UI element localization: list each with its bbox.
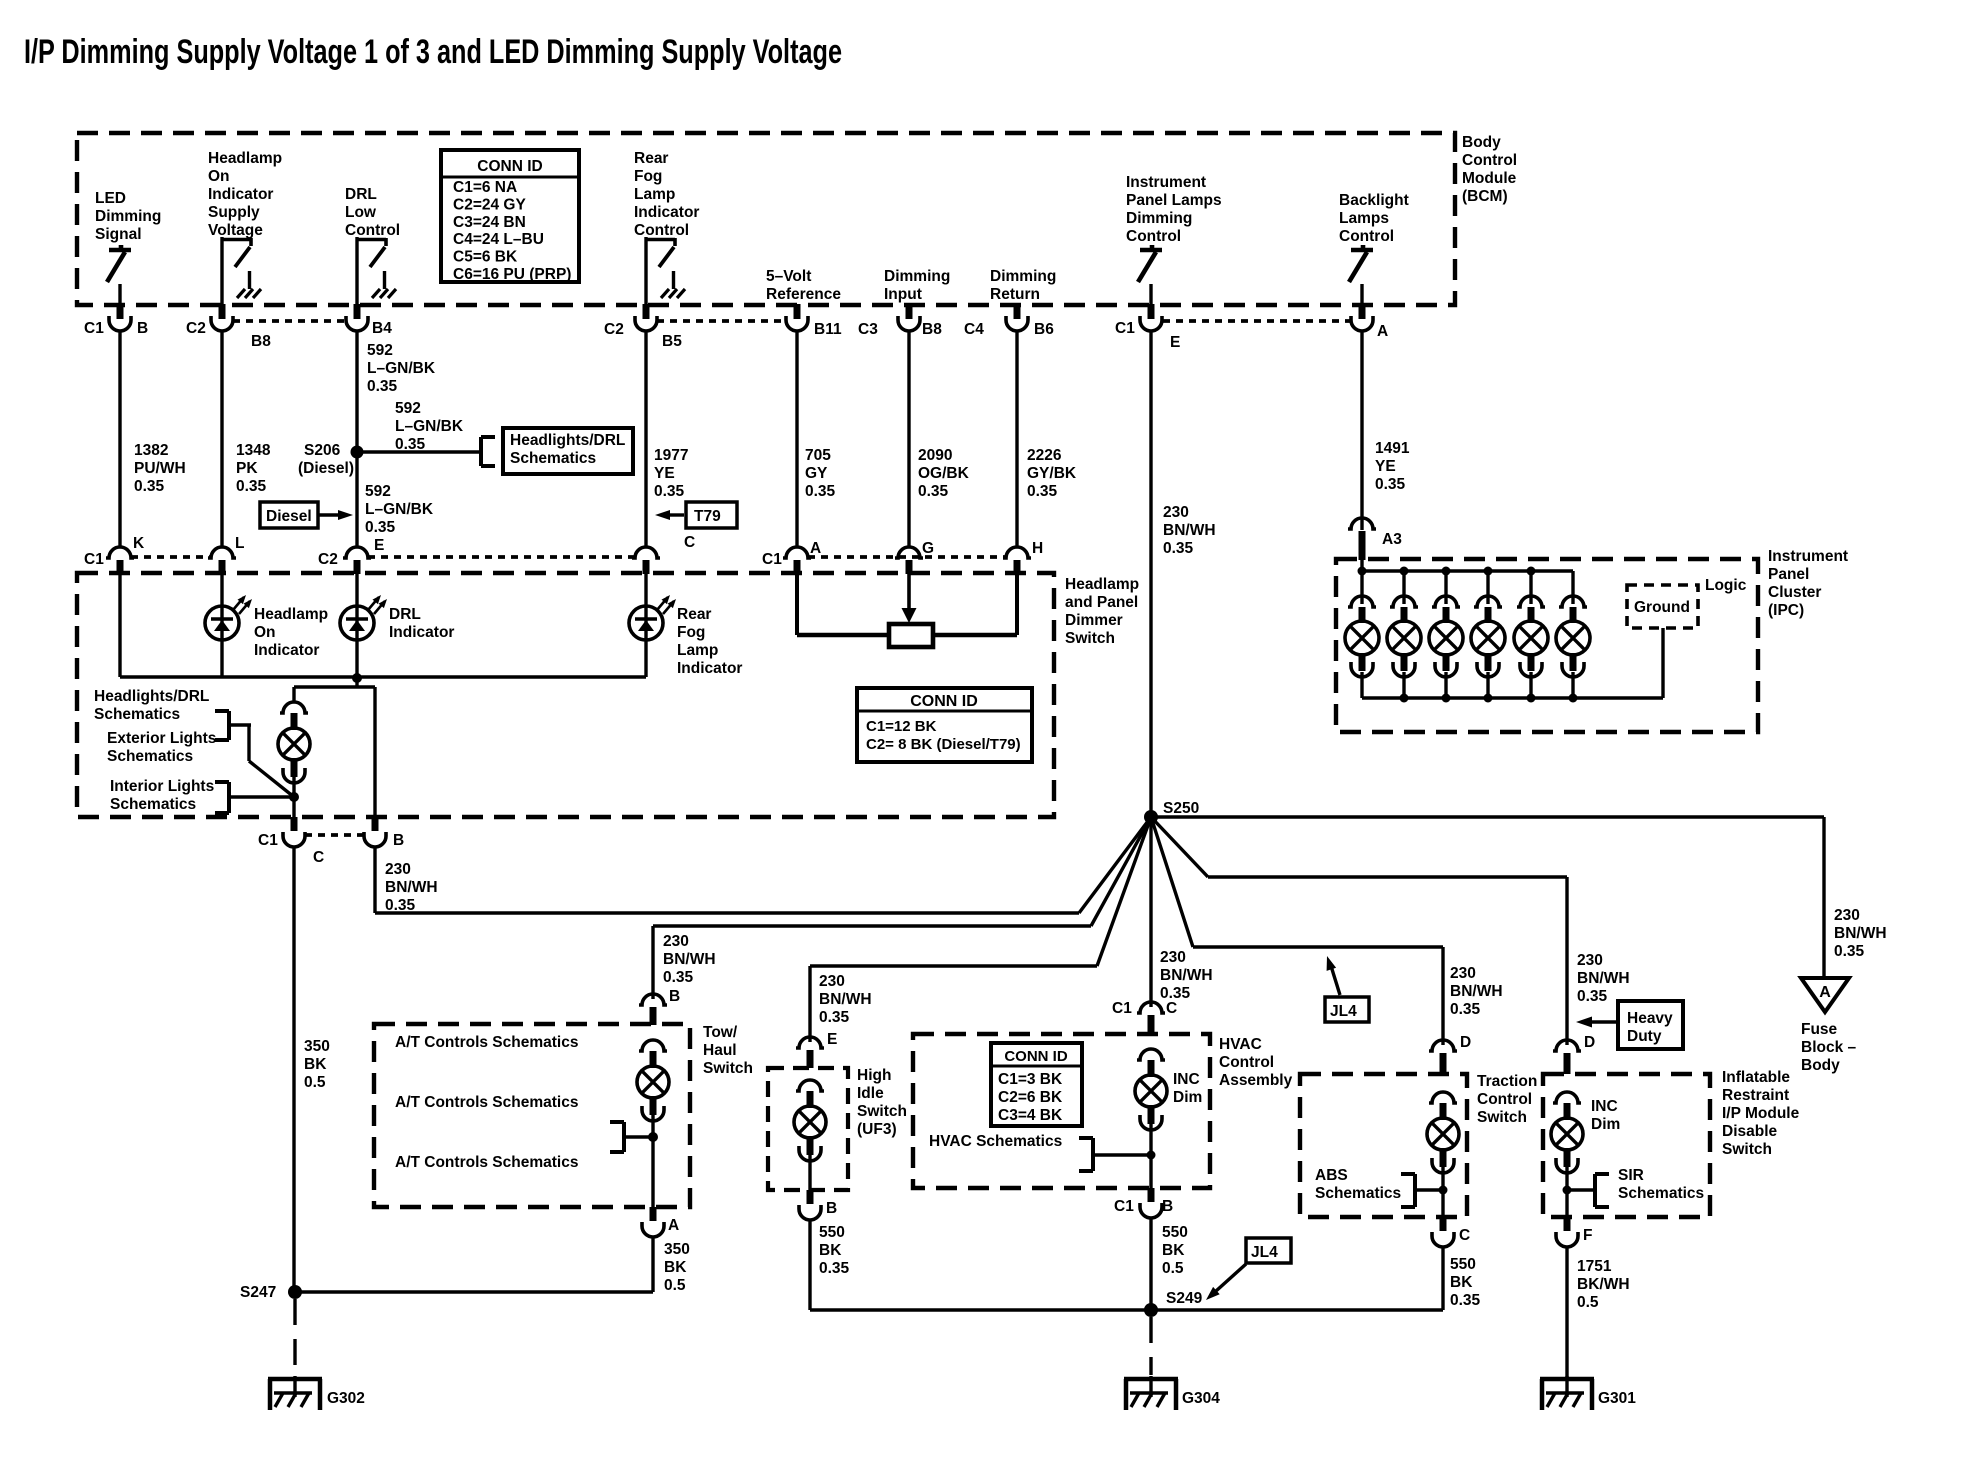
svg-text:G304: G304 [1182,1390,1220,1407]
svg-text:Control: Control [1462,152,1517,169]
wire 1382 PU/WH [118,331,121,548]
svg-text:230: 230 [1160,949,1186,966]
svg-text:Backlight: Backlight [1339,192,1409,209]
svg-text:C4=24 L–BU: C4=24 L–BU [453,231,544,248]
svg-text:CONN ID: CONN ID [910,693,978,710]
svg-text:Headlamp: Headlamp [254,606,328,623]
bracket interior lights [215,782,229,813]
label 1382 PU/WH 0.35 [134,442,186,495]
inflatable INC Dim lamp [1551,1092,1620,1173]
svg-text:0.35: 0.35 [654,483,685,500]
svg-text:G: G [922,540,934,557]
IPC backlight bulb 3 [1429,567,1463,703]
svg-text:0.35: 0.35 [1450,1001,1481,1018]
illumination lamp in dimmer switch [278,702,310,783]
connector C1-C (dimmer bottom) [258,817,324,866]
svg-text:Headlights/DRL: Headlights/DRL [510,432,625,449]
svg-text:A3: A3 [1382,531,1402,548]
svg-text:2226: 2226 [1027,447,1062,464]
svg-text:350: 350 [304,1038,330,1055]
svg-text:B4: B4 [372,320,392,337]
HVAC INC Dim lamp [1135,1049,1202,1130]
svg-text:I/P Module: I/P Module [1722,1105,1800,1122]
wire L through headlamp indicator [220,574,223,677]
svg-text:OG/BK: OG/BK [918,465,970,482]
svg-text:C3=24 BN: C3=24 BN [453,214,526,231]
svg-text:0.5: 0.5 [304,1074,326,1091]
link from bracket to lamp wire [229,725,294,797]
svg-text:ABS: ABS [1315,1167,1348,1184]
Instrument Panel Cluster label [1768,548,1848,619]
svg-text:D: D [1460,1034,1471,1051]
svg-text:A: A [810,540,821,557]
svg-text:Dim: Dim [1591,1116,1620,1133]
svg-text:B: B [669,988,680,1005]
svg-text:5–Volt: 5–Volt [766,268,811,285]
svg-text:L–GN/BK: L–GN/BK [395,418,464,435]
svg-text:Heavy: Heavy [1627,1010,1673,1027]
wiper arrow from G [902,574,917,623]
svg-text:A: A [668,1217,679,1234]
ground G301 [1540,1376,1636,1410]
svg-text:JL4: JL4 [1251,1244,1278,1261]
svg-text:0.35: 0.35 [819,1260,850,1277]
svg-text:0.35: 0.35 [1577,988,1608,1005]
svg-text:HVAC Schematics: HVAC Schematics [929,1133,1062,1150]
svg-text:Fog: Fog [677,624,705,641]
connector C1-A (dimmer) [762,540,821,574]
wire A to S247 bus [651,1237,654,1292]
label 230 BN/WH 0.35 (inflatable) [1577,952,1630,1005]
Backlight driver symbol [1349,245,1373,282]
Dimming Return label [990,268,1056,303]
wire S250 to high idle switch [810,817,1151,1042]
svg-text:230: 230 [385,861,411,878]
wire HVAC B to S249 [1149,1218,1152,1310]
connector C1-K [84,535,145,574]
svg-text:550: 550 [1450,1256,1476,1273]
dotted connector link C2/B8 to B4 [233,319,346,323]
bracket ABS schematics [1401,1174,1415,1207]
connector pin C3-B8 (dimming input) [858,304,942,338]
svg-text:(BCM): (BCM) [1462,188,1508,205]
svg-text:T79: T79 [694,508,721,525]
connector C1-B HVAC [1114,1188,1173,1218]
svg-text:592: 592 [395,400,421,417]
Tow/Haul Switch label [703,1024,753,1077]
svg-text:230: 230 [1163,504,1189,521]
connector B (dimmer bottom) [364,817,404,849]
link SIR bracket to wire [1563,1186,1596,1195]
svg-text:Switch: Switch [1477,1109,1527,1126]
svg-text:Fuse: Fuse [1801,1021,1838,1038]
link ABS bracket to wire [1415,1186,1448,1195]
T79 arrow [655,510,684,520]
link interior bracket to junction [229,795,294,798]
svg-text:(UF3): (UF3) [857,1121,897,1138]
svg-text:BN/WH: BN/WH [1163,522,1216,539]
svg-text:PU/WH: PU/WH [134,460,186,477]
svg-text:1382: 1382 [134,442,168,459]
A/T Controls Schematics labels [395,1034,578,1171]
svg-text:0.35: 0.35 [805,483,836,500]
svg-text:230: 230 [1450,965,1476,982]
svg-text:S247: S247 [240,1284,276,1301]
svg-text:B: B [1162,1198,1173,1215]
svg-text:Dim: Dim [1173,1089,1202,1106]
svg-text:Module: Module [1462,170,1517,187]
svg-text:BN/WH: BN/WH [1577,970,1630,987]
svg-text:DRL: DRL [345,186,377,203]
svg-text:Dimming: Dimming [95,208,161,225]
IPC backlight bulb 2 [1387,567,1421,703]
high idle switch dashed box [768,1068,848,1190]
svg-text:Haul: Haul [703,1042,737,1059]
Dimming Input label [884,268,950,303]
Instrument Panel Lamps Dimming Control label [1126,174,1222,245]
svg-text:I/P Dimming Supply Voltage 1 o: I/P Dimming Supply Voltage 1 of 3 and LE… [24,33,842,71]
svg-text:Body: Body [1801,1057,1840,1074]
svg-text:Switch: Switch [857,1103,907,1120]
svg-text:Lamp: Lamp [677,642,718,659]
IPC backlight bulb 1 [1345,567,1379,699]
svg-text:230: 230 [663,933,689,950]
Rear Fog driver symbol [646,238,685,298]
DRL Low Control driver symbol [357,238,396,298]
Backlight Lamps Control label [1339,192,1409,245]
HVAC Schematics label [929,1133,1062,1150]
svg-text:550: 550 [1162,1224,1188,1241]
svg-text:C: C [1166,1000,1177,1017]
headlamp and panel dimmer switch dashed box [77,573,1054,817]
svg-text:Panel Lamps: Panel Lamps [1126,192,1222,209]
svg-text:D: D [1584,1034,1595,1051]
svg-text:0.5: 0.5 [1577,1294,1599,1311]
svg-text:0.35: 0.35 [1450,1292,1481,1309]
svg-text:BK: BK [1450,1274,1473,1291]
wire branch to Headlights/DRL schematics [357,450,479,453]
svg-text:C2: C2 [186,320,206,337]
dotted link A-G-H [808,555,1006,559]
label 230 BN/WH 0.35 (HVAC) [1160,949,1213,1002]
wire backlight to connector [1360,284,1363,306]
svg-text:JL4: JL4 [1330,1003,1357,1020]
svg-text:Supply: Supply [208,204,260,221]
svg-text:0.35: 0.35 [819,1009,850,1026]
svg-text:C1: C1 [1114,1198,1134,1215]
svg-text:PK: PK [236,460,258,477]
svg-text:Indicator: Indicator [634,204,699,221]
IPC backlight bulb 5 [1514,567,1548,703]
svg-text:Input: Input [884,286,922,303]
wire C through rear fog indicator [644,574,647,677]
svg-text:Panel: Panel [1768,566,1809,583]
svg-text:B: B [137,320,148,337]
Diesel arrow [318,510,353,520]
svg-text:Dimmer: Dimmer [1065,612,1123,629]
HVAC Control Assembly label [1219,1036,1293,1089]
svg-text:Return: Return [990,286,1040,303]
svg-text:BK: BK [1162,1242,1185,1259]
wire S250 to traction control switch [1151,817,1443,1045]
wire 350 BK down to S247 [292,847,295,1292]
svg-text:F: F [1583,1227,1592,1244]
svg-text:Schematics: Schematics [107,748,193,765]
connector L [208,535,244,574]
svg-text:A/T Controls Schematics: A/T Controls Schematics [395,1154,578,1171]
instrument panel cluster dashed box [1336,559,1758,732]
svg-text:B: B [393,832,404,849]
svg-text:A: A [1377,323,1388,340]
wire lamp to junction [292,777,295,817]
wire 705 GY [795,331,798,548]
svg-text:2090: 2090 [918,447,952,464]
wire headlamp-on to connector [220,237,223,306]
svg-text:HVAC: HVAC [1219,1036,1262,1053]
svg-text:Indicator: Indicator [254,642,319,659]
headlamp on indicator LED [205,595,328,659]
svg-text:Control: Control [345,222,400,239]
svg-text:Signal: Signal [95,226,142,243]
wire K to bus [118,574,121,677]
dotted link K-L [131,555,211,559]
svg-text:Headlamp: Headlamp [1065,576,1139,593]
svg-text:A/T Controls Schematics: A/T Controls Schematics [395,1094,578,1111]
dotted link E-C [368,555,635,559]
svg-text:0.35: 0.35 [1027,483,1058,500]
svg-text:Schematics: Schematics [110,796,196,813]
svg-text:Low: Low [345,204,377,221]
svg-text:G301: G301 [1598,1390,1636,1407]
IPC backlight bulb 4 [1471,567,1505,703]
svg-text:E: E [374,537,384,554]
svg-text:Headlights/DRL: Headlights/DRL [94,688,209,705]
svg-text:LED: LED [95,190,126,207]
connector B tow/haul [639,988,680,1025]
Headlamp On Indicator Supply Voltage label [208,150,282,239]
svg-text:C: C [684,534,695,551]
svg-text:Reference: Reference [766,286,841,303]
svg-text:705: 705 [805,447,831,464]
svg-text:BN/WH: BN/WH [1834,925,1887,942]
svg-text:C1=12 BK: C1=12 BK [866,718,937,735]
Traction Control Switch label [1477,1073,1537,1126]
svg-text:K: K [133,535,145,552]
label 550 BK 0.5 (HVAC) [1162,1224,1188,1277]
label 1977 YE 0.35 [654,447,688,500]
IPC top bus [1362,560,1573,571]
svg-text:230: 230 [1577,952,1603,969]
wire LED dimming to connector [118,284,121,306]
ground G304 [1124,1376,1220,1410]
svg-text:C4: C4 [964,321,984,338]
Fuse Block - Body label [1801,1021,1857,1074]
svg-text:0.5: 0.5 [1162,1260,1184,1277]
svg-text:Control: Control [1219,1054,1274,1071]
label 230 BN/WH 0.35 (tow/haul) [663,933,716,986]
label 1751 BK/WH 0.5 [1577,1258,1630,1311]
svg-text:Indicator: Indicator [389,624,454,641]
wire 2090 OG/BK [907,331,910,548]
svg-text:Instrument: Instrument [1126,174,1206,191]
svg-text:Lamp: Lamp [634,186,675,203]
svg-text:BN/WH: BN/WH [385,879,438,896]
dotted link C-B bottom [305,833,364,837]
connector A tow/haul [642,1207,679,1237]
svg-text:Control: Control [1126,228,1181,245]
svg-text:On: On [254,624,276,641]
Headlights/DRL Schematics label [94,688,209,723]
svg-text:Duty: Duty [1627,1028,1662,1045]
Diesel flag box [260,502,318,528]
svg-text:0.35: 0.35 [134,478,165,495]
svg-text:Ground: Ground [1634,599,1690,616]
dotted connector link B5 to B11 [657,319,786,323]
wire 1491 YE [1360,331,1363,528]
splice S206 [298,442,364,477]
svg-text:Schematics: Schematics [510,450,596,467]
svg-text:E: E [1170,334,1180,351]
svg-text:1491: 1491 [1375,440,1410,457]
ABS Schematics label [1315,1167,1401,1202]
svg-text:1751: 1751 [1577,1258,1612,1275]
svg-text:C3=4 BK: C3=4 BK [998,1107,1063,1124]
svg-text:G302: G302 [327,1390,365,1407]
svg-text:230: 230 [1834,907,1860,924]
potentiometer resistor [889,624,933,647]
label 592 L-GN/BK 0.35 upper [367,342,436,395]
svg-text:Inflatable: Inflatable [1722,1069,1790,1086]
high idle lamp [794,1080,826,1161]
connector F inflatable [1556,1217,1592,1247]
svg-text:INC: INC [1173,1071,1200,1088]
svg-text:B8: B8 [251,333,271,350]
wire 1491 to IPC [1360,528,1363,530]
JL4 flag lower [1206,1238,1291,1300]
svg-text:0.35: 0.35 [385,897,416,914]
connector A3 [1348,518,1402,560]
link HVAC bracket to wire [1093,1151,1156,1160]
svg-text:BK: BK [304,1056,327,1073]
label 592 L-GN/BK 0.35 lower [365,483,434,536]
svg-text:GY: GY [805,465,828,482]
svg-text:C2: C2 [604,321,624,338]
svg-text:and Panel: and Panel [1065,594,1138,611]
Body Control Module (BCM) dashed box [77,133,1455,305]
svg-text:L–GN/BK: L–GN/BK [365,501,434,518]
svg-text:C1: C1 [258,832,278,849]
svg-text:C1: C1 [1112,1000,1132,1017]
svg-text:1348: 1348 [236,442,271,459]
svg-text:0.35: 0.35 [918,483,949,500]
svg-text:Body: Body [1462,134,1501,151]
svg-text:L–GN/BK: L–GN/BK [367,360,436,377]
svg-text:H: H [1032,540,1043,557]
inflatable restraint switch dashed box [1543,1074,1710,1217]
svg-text:C1: C1 [84,551,104,568]
svg-text:BK: BK [664,1259,687,1276]
label 230 BN/WH 0.35 (from B) [385,861,438,914]
svg-text:C1: C1 [1115,320,1135,337]
connector C1-C HVAC [1112,1000,1177,1035]
svg-text:High: High [857,1067,891,1084]
label 592 L-GN/BK 0.35 branch [395,400,464,453]
wire 592 L-GN/BK (DRL) [355,331,358,548]
wire traction C to S249 [1441,1246,1444,1310]
svg-text:350: 350 [664,1241,690,1258]
T79 flag box [686,502,737,528]
svg-text:(Diesel): (Diesel) [298,460,354,477]
svg-text:C2: C2 [318,551,338,568]
connector D traction [1429,1034,1471,1074]
label 2090 OG/BK 0.35 [918,447,970,500]
svg-text:1977: 1977 [654,447,688,464]
Heavy Duty arrow [1576,1017,1618,1028]
label 2226 GY/BK 0.35 [1027,447,1077,500]
Headlights/DRL Schematics reference box [503,428,633,474]
svg-text:(IPC): (IPC) [1768,602,1804,619]
svg-text:Exterior Lights: Exterior Lights [107,730,216,747]
svg-text:Schematics: Schematics [94,706,180,723]
svg-text:C3: C3 [858,321,878,338]
IPC logic ground dashed box [1627,585,1698,628]
HVAC control assembly dashed box [913,1034,1210,1188]
bus drop loop [294,687,375,817]
link bracket to tow/haul wire [624,1132,658,1142]
svg-text:550: 550 [819,1224,845,1241]
IPC bottom bus to ground [1362,628,1663,698]
svg-text:DRL: DRL [389,606,421,623]
svg-text:Disable: Disable [1722,1123,1778,1140]
wire lamp to box bottom high idle [808,1155,811,1190]
S247 bus [295,1290,653,1293]
connector H [1003,540,1043,574]
connector E high idle [796,1031,837,1068]
svg-text:592: 592 [367,342,393,359]
junction dot interior lights [289,792,299,802]
Headlamp and Panel Dimmer Switch label [1065,576,1139,647]
wire DRL to connector [355,237,358,306]
svg-text:BK/WH: BK/WH [1577,1276,1630,1293]
label 230 BN/WH 0.35 (traction) [1450,965,1503,1018]
svg-text:BN/WH: BN/WH [1450,983,1503,1000]
svg-text:Fog: Fog [634,168,662,185]
svg-text:C6=16 PU (PRP): C6=16 PU (PRP) [453,266,571,283]
svg-text:0.35: 0.35 [367,378,398,395]
wire lamp to inflatable box bottom [1565,1167,1568,1217]
svg-text:Voltage: Voltage [208,222,263,239]
Interior Lights Schematics label [110,778,214,813]
svg-text:S206: S206 [304,442,341,459]
svg-text:YE: YE [654,465,675,482]
DRL indicator LED [340,595,454,641]
label 705 GY 0.35 [805,447,836,500]
svg-text:Headlamp: Headlamp [208,150,282,167]
svg-text:C1=6 NA: C1=6 NA [453,179,517,196]
svg-text:Traction: Traction [1477,1073,1537,1090]
Headlamp On Indicator driver symbol [222,238,261,298]
connector G [895,540,934,574]
LED Dimming Signal label [95,190,161,243]
wire lamp to junction tow/haul [651,1115,654,1207]
connector C [632,534,695,574]
S249 bus wire [810,1308,1443,1311]
connector C2-E [318,537,384,574]
LED Dimming Signal driver symbol [107,245,131,282]
label 1491 YE 0.35 [1375,440,1410,493]
wire S250 to fuse block [1151,817,1824,978]
svg-text:Switch: Switch [1722,1141,1772,1158]
